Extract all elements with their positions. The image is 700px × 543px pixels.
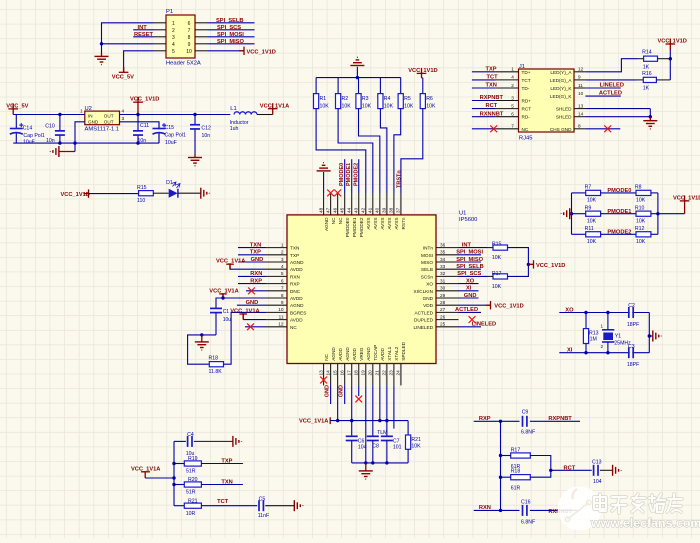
svg-text:R9: R9 xyxy=(585,205,592,211)
svg-text:9: 9 xyxy=(281,300,284,305)
wire R3 to IC pin 41 xyxy=(359,109,380,193)
wire GND (pin9) xyxy=(237,304,266,306)
wire RESET xyxy=(133,36,153,38)
svg-text:C11: C11 xyxy=(140,123,149,129)
svg-text:4: 4 xyxy=(172,42,175,48)
svg-text:RESET: RESET xyxy=(134,32,153,38)
svg-text:NC: NC xyxy=(324,353,329,360)
svg-text:GND: GND xyxy=(251,257,264,263)
wire ACTLED xyxy=(459,311,482,313)
svg-text:51R: 51R xyxy=(186,469,196,475)
svg-text:7: 7 xyxy=(511,124,514,129)
svg-text:10K: 10K xyxy=(411,444,421,450)
svg-text:C12: C12 xyxy=(201,125,211,131)
ground bar (top symbol) xyxy=(356,67,358,78)
svg-text:RD-: RD- xyxy=(522,115,531,120)
svg-text:10K: 10K xyxy=(587,218,597,224)
svg-text:6: 6 xyxy=(188,21,191,27)
capacitor C4 xyxy=(174,432,233,457)
svg-text:5: 5 xyxy=(281,271,284,276)
svg-text:104: 104 xyxy=(358,444,367,450)
svg-text:CHS GND: CHS GND xyxy=(550,127,572,132)
svg-text:ACTLED: ACTLED xyxy=(415,310,434,315)
wire RXP xyxy=(474,420,520,422)
svg-text:C15: C15 xyxy=(165,125,175,131)
svg-text:R20: R20 xyxy=(188,477,198,483)
svg-text:SHLED: SHLED xyxy=(556,107,572,112)
wire TXN (TX block) xyxy=(201,484,243,486)
svg-text:RXN: RXN xyxy=(479,505,491,511)
svg-text:L1: L1 xyxy=(230,106,236,112)
svg-text:DNC: DNC xyxy=(290,289,301,294)
svg-text:15: 15 xyxy=(332,370,337,376)
wire pin8 AVDD to C1 xyxy=(216,298,266,308)
wire C13 to ground xyxy=(600,469,613,471)
wire INT xyxy=(133,29,153,31)
inductor L1 xyxy=(230,106,257,132)
power VCC_1V1D (header) xyxy=(239,47,244,55)
svg-text:RXP: RXP xyxy=(290,282,300,287)
wire XO xyxy=(459,283,479,285)
svg-text:SPI_MISO: SPI_MISO xyxy=(217,39,244,45)
svg-text:PMODE1: PMODE1 xyxy=(607,209,631,215)
svg-text:VCC_1V1D: VCC_1V1D xyxy=(247,49,276,55)
no-ERC pin7 xyxy=(246,290,266,292)
svg-text:AVSS: AVSS xyxy=(394,218,399,230)
wire right vertical xyxy=(657,193,659,234)
resistor R2 xyxy=(336,78,352,110)
svg-text:GND: GND xyxy=(423,296,434,301)
svg-text:R8: R8 xyxy=(635,185,642,191)
wire net PMODE0 xyxy=(601,192,636,194)
wire TCT xyxy=(201,505,257,507)
svg-text:AGND: AGND xyxy=(290,260,304,265)
svg-text:AVDD: AVDD xyxy=(290,318,303,323)
wire bottom ground rail xyxy=(352,462,408,464)
power VCC_5V (header) xyxy=(123,67,125,73)
svg-text:48: 48 xyxy=(318,207,323,213)
svg-text:R11: R11 xyxy=(585,226,594,232)
svg-text:1: 1 xyxy=(172,21,175,27)
svg-text:AGND: AGND xyxy=(331,347,336,361)
svg-text:43: 43 xyxy=(353,207,358,213)
svg-text:18: 18 xyxy=(353,370,358,376)
no-ERC pin26 xyxy=(469,316,476,323)
svg-text:BGRES: BGRES xyxy=(290,310,306,315)
svg-text:RXN: RXN xyxy=(290,274,300,279)
svg-text:LED(G)_A: LED(G)_A xyxy=(550,78,572,83)
wire TXN xyxy=(472,87,496,89)
svg-text:NC: NC xyxy=(331,217,336,224)
wire VCC_1V1A rail xyxy=(330,420,408,422)
svg-text:RXP: RXP xyxy=(250,278,262,284)
svg-text:GND: GND xyxy=(88,120,99,125)
resistor R20 xyxy=(174,477,201,496)
svg-text:1: 1 xyxy=(600,323,603,328)
ground (D1) xyxy=(201,188,210,199)
connector J1 RJ45 xyxy=(496,64,586,142)
svg-text:RXP: RXP xyxy=(479,416,491,422)
svg-text:SHLED: SHLED xyxy=(556,115,572,120)
svg-text:XI: XI xyxy=(466,286,472,292)
svg-text:SPI_SCS: SPI_SCS xyxy=(457,271,481,277)
svg-text:C5: C5 xyxy=(259,497,266,503)
svg-text:18PF: 18PF xyxy=(627,362,639,368)
wire PMODE0 stub xyxy=(344,159,346,193)
svg-text:6.8NF: 6.8NF xyxy=(521,429,535,435)
svg-text:4: 4 xyxy=(511,75,514,80)
svg-text:ACTLED: ACTLED xyxy=(455,307,478,313)
svg-text:XO: XO xyxy=(565,307,574,313)
svg-text:U1: U1 xyxy=(459,210,466,216)
crystal Y1 25MHz xyxy=(600,311,631,355)
svg-text:14: 14 xyxy=(325,370,330,376)
wire RXP xyxy=(238,283,266,285)
svg-text:11.8K: 11.8K xyxy=(209,369,223,375)
svg-text:VCC_1V1D: VCC_1V1D xyxy=(494,304,523,310)
wire RXN xyxy=(474,509,520,511)
wire R15 to D1 xyxy=(153,192,168,194)
svg-text:10K: 10K xyxy=(404,104,414,110)
svg-text:PMODE2: PMODE2 xyxy=(607,229,631,235)
svg-text:33: 33 xyxy=(440,264,446,269)
wire RXNNBT xyxy=(530,509,580,511)
svg-text:LED(Y)_K: LED(Y)_K xyxy=(550,86,572,91)
svg-text:2: 2 xyxy=(511,83,514,88)
svg-text:10K: 10K xyxy=(320,104,330,110)
ground (crystal) xyxy=(653,331,662,342)
svg-text:RD+: RD+ xyxy=(522,99,532,104)
svg-text:VREG: VREG xyxy=(359,347,364,361)
svg-text:10K: 10K xyxy=(492,255,502,261)
svg-text:1uh: 1uh xyxy=(230,126,239,132)
svg-text:1K: 1K xyxy=(643,85,650,91)
svg-text:GND: GND xyxy=(464,293,477,299)
svg-text:7: 7 xyxy=(281,286,284,291)
wire R1 to IC pin 43 xyxy=(316,109,366,193)
svg-text:VCC_1V1A: VCC_1V1A xyxy=(299,418,328,424)
svg-text:AGND: AGND xyxy=(345,347,350,361)
svg-text:10uF: 10uF xyxy=(23,139,35,145)
svg-text:R6: R6 xyxy=(426,96,433,102)
wire R5 to IC pin 39 xyxy=(394,109,401,193)
wire SPI_MISO xyxy=(459,261,482,263)
wire net PMODE2 xyxy=(601,233,636,235)
ground (regulator) xyxy=(59,151,75,153)
svg-text:AGND: AGND xyxy=(290,303,304,308)
svg-text:2: 2 xyxy=(281,250,284,255)
svg-text:9: 9 xyxy=(188,42,191,48)
svg-text:AVDD: AVDD xyxy=(352,348,357,361)
svg-text:XO: XO xyxy=(466,278,475,284)
svg-text:RJ45: RJ45 xyxy=(519,135,533,141)
capacitor C15 xyxy=(153,122,186,146)
resistor R1 xyxy=(314,78,330,110)
capacitor C3 xyxy=(627,344,639,368)
wire TCT xyxy=(472,79,496,81)
svg-text:PMODE0: PMODE0 xyxy=(607,188,631,194)
svg-text:OUT: OUT xyxy=(104,113,114,118)
svg-text:R5: R5 xyxy=(404,96,411,102)
svg-text:R7: R7 xyxy=(585,185,592,191)
svg-text:AVDD: AVDD xyxy=(380,348,385,361)
svg-text:21: 21 xyxy=(375,370,380,376)
capacitor C16 xyxy=(521,500,535,526)
wire R15/R17 join to VCC_1V1D xyxy=(508,248,529,277)
wire pin14 GND xyxy=(330,385,332,404)
svg-text:14: 14 xyxy=(578,112,584,117)
svg-text:AGND: AGND xyxy=(366,347,371,361)
wire pin20 to C8 xyxy=(372,385,374,436)
no-ERC marks top pins 47,46 xyxy=(327,190,334,197)
wire pin22 to C7 xyxy=(386,385,388,436)
ground (C4) xyxy=(233,436,242,447)
svg-text:1: 1 xyxy=(511,67,514,72)
svg-text:10K: 10K xyxy=(636,198,646,204)
wire RX left vertical xyxy=(500,421,502,510)
wire pin17 to rail xyxy=(351,385,353,420)
svg-text:61R: 61R xyxy=(511,485,521,491)
capacitor C14 xyxy=(10,115,45,146)
svg-text:R17: R17 xyxy=(492,271,502,277)
svg-text:20: 20 xyxy=(368,370,373,376)
svg-text:INT: INT xyxy=(462,242,472,248)
wire pin18 no-ERC xyxy=(358,385,360,396)
resistor R21 (bottom) xyxy=(406,421,422,463)
svg-text:LINELED: LINELED xyxy=(600,83,624,89)
resistor R16 xyxy=(637,71,671,91)
svg-text:AVSS: AVSS xyxy=(387,218,392,230)
svg-text:LINELED: LINELED xyxy=(413,325,433,330)
power VCC_1V1D (SPI pullups) xyxy=(529,260,534,268)
resistor R3 xyxy=(356,78,372,110)
svg-text:10: 10 xyxy=(578,91,584,96)
svg-text:NC: NC xyxy=(290,325,297,330)
U1 left pins xyxy=(266,242,307,329)
svg-text:23: 23 xyxy=(389,370,394,376)
wire pin23 stub xyxy=(393,385,395,428)
svg-text:www.elecfans.com: www.elecfans.com xyxy=(590,516,700,530)
svg-text:R16: R16 xyxy=(642,71,652,77)
wire SPI_SCS xyxy=(208,29,255,31)
capacitor C1 xyxy=(210,308,231,335)
resistor R18 xyxy=(209,356,224,375)
svg-text:10: 10 xyxy=(186,49,192,55)
svg-text:NC: NC xyxy=(522,127,529,132)
svg-text:TOCAP: TOCAP xyxy=(373,345,378,361)
svg-text:GND: GND xyxy=(246,300,259,306)
ground (U1 bottom) xyxy=(365,463,367,471)
resistor R18 (RX) xyxy=(501,469,531,492)
wire gnd rail (regulator) xyxy=(13,142,159,144)
svg-text:C8: C8 xyxy=(372,444,379,450)
ground (SHLED) xyxy=(649,117,651,121)
svg-text:TD+: TD+ xyxy=(522,70,531,75)
svg-text:R15: R15 xyxy=(137,185,147,191)
wire pin19 to ground rail xyxy=(365,385,367,463)
svg-text:R19: R19 xyxy=(188,456,198,462)
watermark CJK text xyxy=(594,494,682,513)
power VCC_1V1A (L1 out) xyxy=(268,103,278,109)
svg-text:42: 42 xyxy=(360,207,365,213)
svg-text:TLM: TLM xyxy=(377,430,387,436)
wire U2 OUT2 down xyxy=(120,122,160,143)
svg-text:RCT: RCT xyxy=(486,103,498,109)
wire J1.9 to R16 xyxy=(585,79,636,81)
resistor R17 (RX) xyxy=(501,447,531,470)
svg-text:10n: 10n xyxy=(46,138,55,144)
svg-text:R10: R10 xyxy=(635,205,645,211)
wire LINELED xyxy=(459,326,482,328)
svg-text:RXN: RXN xyxy=(250,271,262,277)
resistor R21 (TCT) xyxy=(174,498,201,517)
wire SPI_SELB xyxy=(208,22,255,24)
svg-text:10K: 10K xyxy=(342,104,352,110)
svg-text:SPI_MOSI: SPI_MOSI xyxy=(217,32,244,38)
svg-text:Cap Pol1: Cap Pol1 xyxy=(23,133,44,139)
svg-text:TCT: TCT xyxy=(487,75,499,81)
ground (C13) xyxy=(613,465,622,476)
svg-text:AVDD: AVDD xyxy=(290,296,303,301)
svg-text:C14: C14 xyxy=(23,125,33,131)
svg-text:32: 32 xyxy=(440,271,446,276)
svg-text:AVDD: AVDD xyxy=(290,267,303,272)
no-ERC pin12 xyxy=(245,326,266,328)
svg-text:C4: C4 xyxy=(187,432,194,438)
svg-text:AVDD: AVDD xyxy=(338,348,343,361)
wire SPI_MOSI xyxy=(208,36,255,38)
svg-text:1: 1 xyxy=(80,109,83,115)
wire GND (pin3) xyxy=(238,261,266,263)
wire NC (J1.7) no-ERC xyxy=(472,128,496,130)
wire TXP xyxy=(238,254,266,256)
wire TXP (TX block) xyxy=(201,463,243,465)
svg-text:VCC_1V1D: VCC_1V1D xyxy=(536,263,565,269)
svg-text:TXP: TXP xyxy=(250,250,261,256)
svg-text:SPDLED: SPDLED xyxy=(401,341,406,360)
wire ACTLED xyxy=(585,95,620,97)
capacitor C6 xyxy=(346,421,367,463)
ground (C5) xyxy=(294,500,303,511)
svg-text:13: 13 xyxy=(578,103,584,108)
svg-text:R12: R12 xyxy=(635,226,645,232)
wire P1.5 to VCC_5V xyxy=(124,51,154,67)
resistor R13 xyxy=(583,311,598,355)
svg-text:R13: R13 xyxy=(589,330,599,336)
svg-text:XTAL1: XTAL1 xyxy=(387,346,392,360)
svg-text:TXN: TXN xyxy=(290,246,299,251)
wire SPI_SCS xyxy=(459,275,488,277)
svg-text:R4: R4 xyxy=(384,96,391,102)
wire VDD to VCC_1V1D xyxy=(459,304,491,306)
svg-text:41: 41 xyxy=(368,207,373,213)
wire R18 to pin10 BGRES xyxy=(224,312,266,364)
svg-text:3: 3 xyxy=(281,257,284,262)
capacitor C7 xyxy=(381,436,402,463)
svg-text:PMODE2: PMODE2 xyxy=(353,163,359,186)
svg-text:25: 25 xyxy=(440,322,446,327)
svg-text:LED(G)_K: LED(G)_K xyxy=(550,94,572,99)
svg-text:18PF: 18PF xyxy=(627,322,639,328)
svg-text:5: 5 xyxy=(172,49,175,55)
svg-text:RSTn: RSTn xyxy=(401,217,406,229)
svg-text:XI/CLKIN: XI/CLKIN xyxy=(413,289,433,294)
svg-text:R3: R3 xyxy=(362,96,369,102)
svg-text:AVSS: AVSS xyxy=(373,218,378,230)
svg-text:VCC_1V1A: VCC_1V1A xyxy=(216,258,245,264)
resistor R9 xyxy=(572,205,601,224)
svg-text:RXPNBT: RXPNBT xyxy=(548,416,572,422)
resistor R6 xyxy=(420,78,436,110)
svg-text:R17: R17 xyxy=(511,447,521,453)
svg-text:TD-: TD- xyxy=(522,86,530,91)
wire D1 to ground xyxy=(178,192,201,194)
capacitor C10 xyxy=(45,113,65,145)
svg-text:R21: R21 xyxy=(188,498,198,504)
header P1 xyxy=(154,9,208,67)
svg-text:NC: NC xyxy=(338,217,343,224)
svg-text:12: 12 xyxy=(278,322,284,327)
svg-text:10n: 10n xyxy=(202,133,211,139)
svg-text:MISO: MISO xyxy=(421,260,433,265)
svg-text:R18: R18 xyxy=(209,356,219,362)
svg-text:R2: R2 xyxy=(342,96,349,102)
capacitor C13 xyxy=(592,459,602,485)
wire XI xyxy=(459,290,479,292)
svg-text:R1: R1 xyxy=(320,96,327,102)
svg-text:45: 45 xyxy=(339,207,344,213)
svg-text:46: 46 xyxy=(332,207,337,213)
regulator U2 xyxy=(80,106,125,132)
wire left vertical xyxy=(571,193,573,234)
svg-text:LINELED: LINELED xyxy=(472,322,496,328)
U1 top pins xyxy=(318,193,406,237)
ground (C1/R18) xyxy=(201,335,203,342)
svg-text:10uF: 10uF xyxy=(165,140,177,146)
svg-text:TXN: TXN xyxy=(221,479,232,485)
svg-text:6.8NF: 6.8NF xyxy=(521,519,535,525)
svg-text:SPI_SELB: SPI_SELB xyxy=(216,18,244,24)
svg-text:R14: R14 xyxy=(642,50,652,56)
wire L1 to VCC_1V1A xyxy=(257,114,273,116)
wire PMODE2 stub xyxy=(358,159,360,193)
svg-text:8: 8 xyxy=(578,124,581,129)
wire P1.10 to VCC_1V1D xyxy=(208,50,245,52)
wire PMODE1 stub xyxy=(351,159,353,193)
svg-text:4: 4 xyxy=(122,109,125,115)
wire SPI_MOSI xyxy=(459,254,482,256)
wire INT xyxy=(459,247,488,249)
svg-text:GND: GND xyxy=(325,385,331,397)
svg-text:10K: 10K xyxy=(636,218,646,224)
svg-text:8: 8 xyxy=(188,35,191,41)
resistor R7 xyxy=(572,185,601,204)
svg-text:104: 104 xyxy=(593,479,602,485)
svg-text:U2: U2 xyxy=(85,106,92,112)
wire pin4 xyxy=(230,268,266,270)
svg-text:SELB: SELB xyxy=(421,267,433,272)
capacitor C2 xyxy=(627,303,639,328)
svg-text:VCC_1V1A: VCC_1V1A xyxy=(260,103,289,109)
svg-text:TRSTn: TRSTn xyxy=(396,170,402,188)
svg-text:7: 7 xyxy=(188,28,191,34)
svg-text:17: 17 xyxy=(346,370,351,376)
svg-text:MOSI: MOSI xyxy=(421,253,433,258)
ground (C12) xyxy=(194,153,196,157)
watermark logo circle xyxy=(558,487,602,531)
wire SHLED pair to ground xyxy=(585,108,650,110)
svg-text:AVSS: AVSS xyxy=(380,218,385,230)
